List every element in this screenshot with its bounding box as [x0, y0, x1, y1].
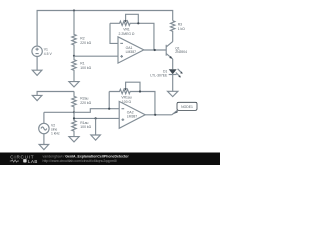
ground below V2 [39, 145, 49, 150]
node R2/R1/opamp [73, 55, 75, 57]
ground below D1 [168, 91, 178, 96]
transistor Q1 [166, 42, 187, 59]
op-amp OA2 [119, 101, 145, 128]
junction + wire / ground drop [95, 117, 97, 119]
node R2au/R1au/V2 [73, 111, 75, 113]
junction VR1 wiper loop [137, 22, 139, 24]
node flag NODE1 [172, 102, 197, 115]
wire OA2 output [145, 114, 172, 116]
svg-text:4.5 V: 4.5 V [44, 52, 53, 56]
svg-text:1 kΩ: 1 kΩ [178, 27, 186, 31]
node junction top rail / R2 [73, 9, 75, 11]
potentiometer VR1 [110, 14, 154, 50]
svg-text:100 kΩ: 100 kΩ [80, 66, 91, 70]
voltage source V2 [39, 112, 60, 135]
wire ground drop [95, 118, 97, 135]
wire Q1 emitter to D1 [172, 59, 174, 69]
resistor R2au [72, 91, 92, 112]
resistor R3 [171, 21, 186, 42]
svg-text:NODE1: NODE1 [181, 105, 193, 109]
svg-text:LTL-307EE: LTL-307EE [150, 73, 168, 77]
ground below R1au [69, 137, 79, 142]
svg-text:vandenghavi / GeniA_Explanatio: vandenghavi / GeniA_ExplanationCellPhone… [43, 155, 130, 159]
svg-text:LM387: LM387 [127, 115, 137, 119]
svg-text:LM387: LM387 [126, 50, 136, 54]
svg-text:R3: R3 [178, 22, 182, 26]
svg-text:1 kHz: 1 kHz [51, 132, 60, 136]
svg-text:2N3904: 2N3904 [175, 50, 187, 54]
wire V2 bottom [43, 134, 45, 145]
junction VR1au wiper loop [139, 90, 141, 92]
resistor R2 [72, 11, 92, 56]
junction OA2 inverting input [108, 108, 110, 110]
svg-text:R2: R2 [80, 37, 84, 41]
wire OA1 output to Q1 base [144, 49, 166, 51]
ground below + wire [91, 135, 101, 140]
junction OA1 output / feedback [154, 49, 156, 51]
wire node to OA2 inverting input (step) [74, 109, 119, 113]
svg-text:100 kΩ: 100 kΩ [80, 125, 91, 129]
footer bar [0, 153, 220, 166]
LED D1 [150, 69, 182, 78]
svg-text:220 kΩ: 220 kΩ [80, 101, 91, 105]
junction OA2 output / feedback [154, 114, 156, 116]
wire feedback left branch to OA1 inverting input [110, 23, 118, 43]
svg-text:R2au: R2au [80, 96, 88, 100]
voltage source V1 [32, 46, 53, 56]
wire V1 bottom [36, 57, 38, 71]
svg-text:220 kΩ: 220 kΩ [80, 41, 91, 45]
wire V2 to divider node [44, 111, 74, 113]
wire D1 cathode down [172, 75, 174, 92]
ground left of R2au [32, 95, 42, 100]
wire feedback left branch OA2 [108, 92, 110, 109]
resistor R1 [72, 56, 92, 82]
junction on R1au top [73, 117, 75, 119]
svg-text:R1: R1 [80, 61, 84, 65]
wire node to OA1 + input [74, 55, 118, 57]
resistor R1au [72, 112, 92, 136]
svg-text:2.2MEG Ω: 2.2MEG Ω [119, 32, 135, 36]
svg-text:LAB: LAB [28, 159, 38, 164]
ground below V1 [32, 70, 42, 75]
svg-text:http://www.circuitlab.com/circ: http://www.circuitlab.com/circuit/c6kqnu… [43, 159, 118, 163]
ground below R1 [69, 82, 79, 87]
wire R2au top to left ground [37, 92, 74, 96]
wire R1au top to OA2 + input [74, 117, 119, 119]
potentiometer VR1au [109, 82, 155, 115]
wire top rail from V1 to R3 [37, 11, 173, 46]
op-amp OA1 [118, 37, 144, 63]
